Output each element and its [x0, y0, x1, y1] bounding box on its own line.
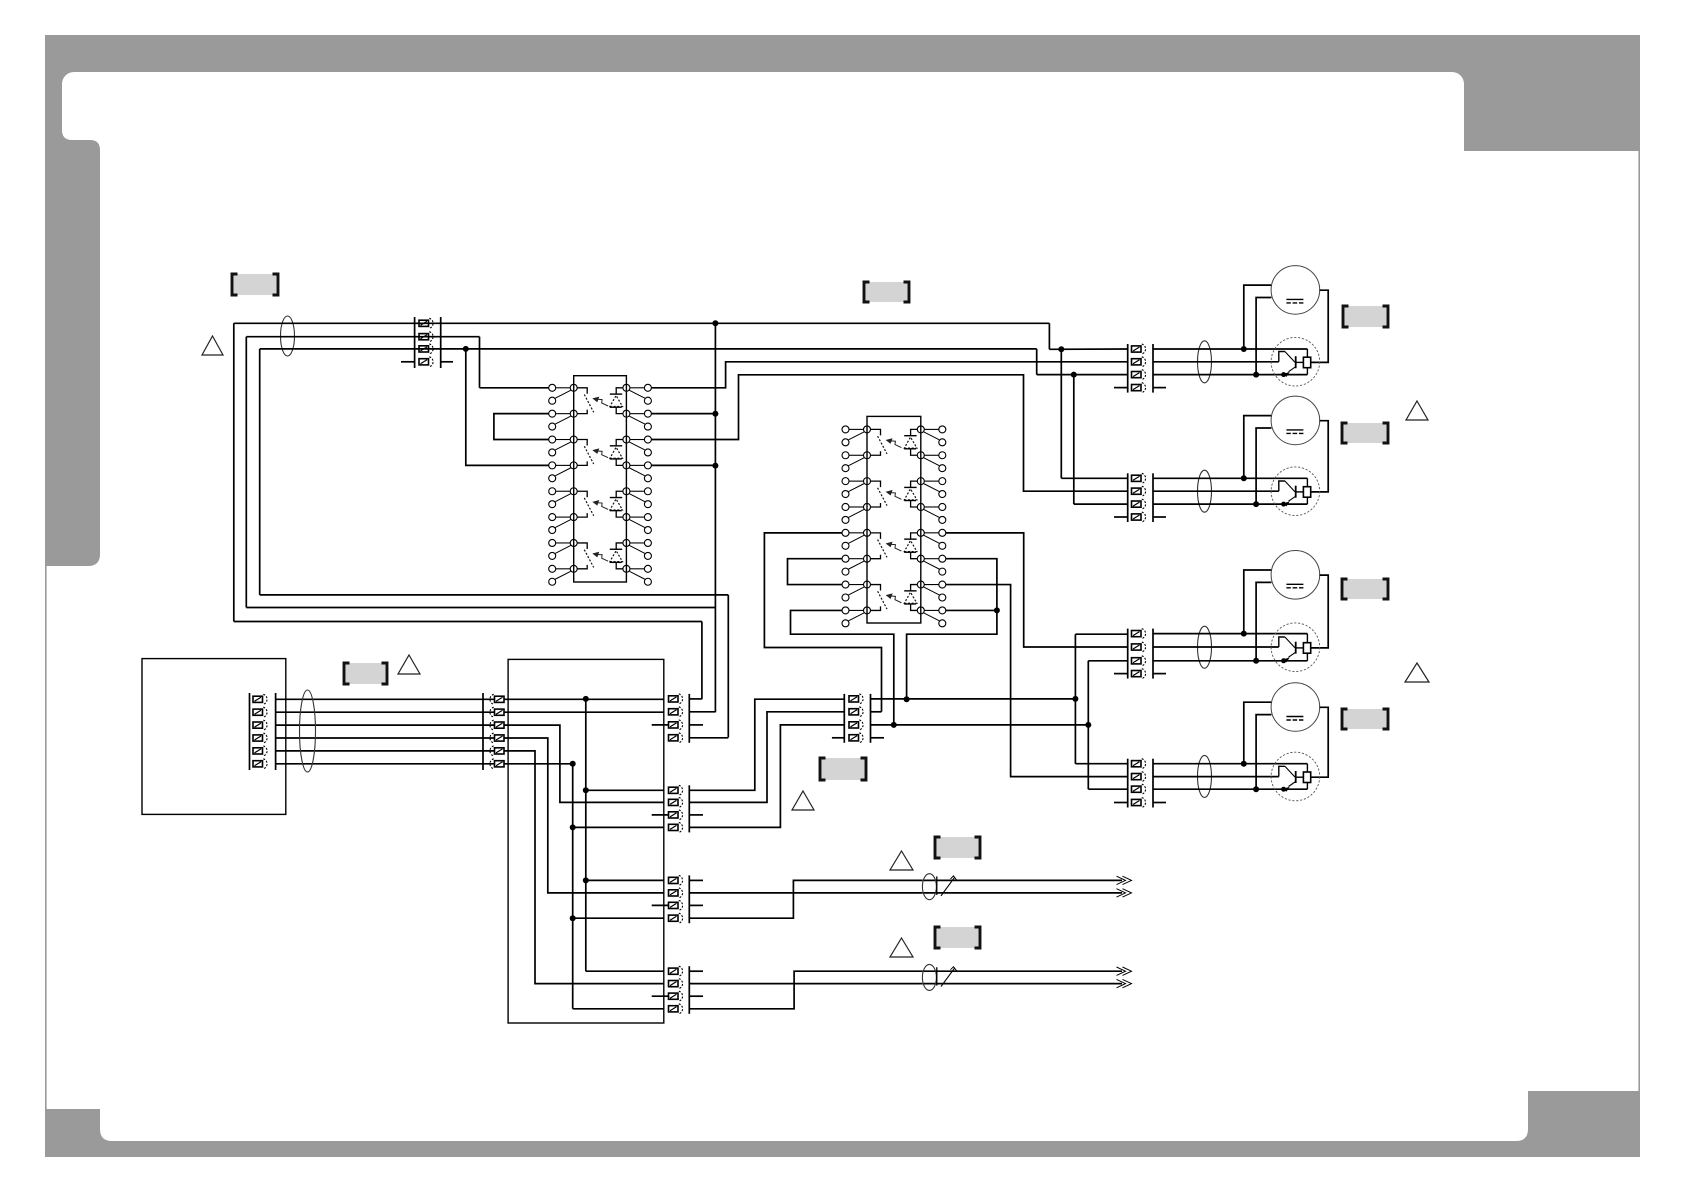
- wire U1 row3-row5 left jumper: [494, 414, 549, 440]
- transistor Q3 symbol: [1306, 634, 1308, 643]
- cable oval group 2: [1198, 470, 1212, 512]
- U1 channel 2 photo-triac symbol: [616, 440, 623, 446]
- wire CN6 row1 to vertical bus V1: [871, 698, 1076, 700]
- label box L6 (output 2): [935, 927, 980, 948]
- connector CN-C pins: [669, 877, 679, 883]
- connector CN-B pins: [669, 787, 679, 793]
- fan transistor unit Q2 circle: [1271, 467, 1320, 516]
- connector CN-F1 pins: [1132, 346, 1142, 352]
- connector CN-C bracket line: [688, 875, 690, 923]
- wire CN6 row2 stub to riser: [871, 711, 882, 713]
- PCB bus A vertical: [585, 699, 587, 971]
- wire U1 row1 right to fan-group1 row2: [651, 362, 1127, 388]
- wire group 2 row2 to motor base: [1153, 490, 1279, 492]
- wire U2 row15 right stub: [946, 609, 997, 611]
- transistor Q1 emitter arrow: [1283, 372, 1290, 377]
- wire CN-D row4 step up output: [689, 971, 922, 1009]
- warning triangle W3: [792, 791, 814, 810]
- U2 body outline: [867, 416, 921, 623]
- U2 channel 2 actuation arrow: [891, 493, 901, 500]
- label box L3 (middle left): [344, 663, 387, 684]
- U2 right pin links and spare diagonals: [924, 428, 939, 430]
- connector CN-F4 pins: [1132, 761, 1142, 767]
- connector CN4 pins: [253, 696, 263, 702]
- DC fan motor M1 circle: [1271, 266, 1320, 315]
- label box L1 (top-left connector): [232, 274, 278, 295]
- U1 channel 4 actuation arrow: [598, 554, 608, 561]
- wire DC fan M1 right leg: [1311, 290, 1328, 362]
- connector CN6 row4 NC stubs: [832, 737, 844, 739]
- connector CN-C NC row stubs: [652, 904, 669, 906]
- wire CN-C row4 step up output: [689, 880, 922, 918]
- wire group 4 row1 to motor: [1153, 763, 1307, 765]
- wire group 2 row1 to motor: [1153, 477, 1307, 479]
- DC fan motor M3 circle: [1271, 551, 1320, 600]
- wire left riser CN1 pin1: [233, 323, 235, 621]
- connector CN-F2 bracket lines: [1127, 473, 1129, 522]
- U2 channel 3 actuation arrow: [891, 544, 901, 551]
- wire net1: CN1 pin1 to fan-group1 row1 / bus1: [234, 322, 1050, 324]
- cable oval on CN1 harness: [281, 316, 295, 356]
- warning triangle W5: [890, 938, 913, 957]
- wire group 3 row3 to motor: [1153, 660, 1307, 662]
- fan transistor unit Q4 circle: [1271, 752, 1320, 801]
- connector CN-D pins: [669, 968, 679, 974]
- warning triangle W1: [202, 336, 223, 355]
- wire net2: CN1 pin2 segment to IC1 row1 LED: [246, 336, 479, 338]
- connector CN-B NC row stubs: [652, 814, 669, 816]
- PCB row1 wire: [508, 698, 664, 700]
- page frame left notch round: [62, 130, 72, 140]
- wire CN-D row2 output: [689, 983, 922, 985]
- transistor Q2 symbol: [1306, 478, 1308, 486]
- U1 right pin links and spare diagonals: [630, 387, 645, 389]
- connector CN-B bracket line: [688, 785, 690, 832]
- wire net3: CN1 pin3 long wire: [260, 348, 1037, 350]
- transistor Q4 symbol: [1306, 764, 1308, 772]
- PCB bus B branches: [573, 826, 664, 828]
- wire CN-B row4 to connector CN6 row3: [689, 725, 844, 828]
- wire group 3 row1 to motor: [1153, 633, 1307, 635]
- connector CN4 bracket lines: [249, 693, 251, 770]
- output pair arrows: [1117, 967, 1126, 975]
- U1 channel 4 photo-triac symbol: [616, 543, 623, 549]
- connector CN-F1 row4 NC stubs: [1114, 387, 1128, 389]
- warning triangle W7: [1405, 663, 1429, 682]
- label box L7 (fan group 1): [1343, 306, 1388, 327]
- wire U-run lower2: [246, 607, 715, 609]
- U2 right inner pin circles: [917, 426, 924, 433]
- main PCB outline: [508, 659, 664, 1023]
- U1 left inner pin circles: [570, 384, 577, 391]
- label box L5 (output 1): [935, 837, 980, 858]
- wire U2 row15 left underpass: [791, 610, 894, 724]
- U2 channel 3 photo-triac symbol: [911, 533, 918, 539]
- output pair arrows: [1117, 876, 1126, 884]
- U1 channel 1 photo-triac symbol: [616, 388, 623, 394]
- U1 channel 1 switch symbol: [577, 388, 587, 394]
- U2 channel 1 photo-triac symbol: [911, 429, 918, 435]
- wire net3 step down to fan-group1 row3: [1036, 349, 1038, 375]
- cable oval group 1: [1198, 341, 1212, 383]
- fan transistor unit Q3 circle: [1271, 623, 1320, 672]
- output pair bar: [936, 967, 938, 985]
- U1 left outer pin circles: [549, 384, 556, 391]
- wire group 4 row2 to motor base: [1153, 776, 1279, 778]
- label box L4 (middle): [820, 758, 866, 780]
- page frame left strip: [45, 72, 62, 140]
- U1 channel 1 actuation arrow: [598, 399, 608, 406]
- connector CN-D NC row stubs: [652, 995, 669, 997]
- wire U1 row1 left from CN1 pin2: [480, 387, 549, 389]
- U2 channel 4 photo-triac symbol: [911, 585, 918, 591]
- wire CN-C row1 stub: [689, 879, 703, 881]
- wire group 4 row3 to motor: [1153, 788, 1307, 790]
- DC fan motor M2 DC symbol: [1286, 429, 1303, 431]
- wire left riser CN1 pin3: [259, 349, 261, 595]
- U2 channel 4 switch symbol: [871, 585, 881, 591]
- U2 right outer pin circles: [939, 426, 946, 433]
- DC fan motor M3 DC symbol: [1286, 583, 1303, 585]
- wire U1 row5 right to bus3 / group2 row2: [651, 375, 1127, 491]
- U2 channel 1 switch symbol: [871, 429, 881, 435]
- U2 left inner pin circles: [864, 426, 871, 433]
- wire CN-A row4 from U-run lower3: [689, 737, 728, 739]
- harness 6 wires to main PCB: [276, 698, 509, 700]
- wire DC fan M1 legs: [1244, 285, 1271, 349]
- wire U2 row13 right to group4 row2: [946, 585, 1128, 777]
- wire DC fan M4 right leg: [1311, 707, 1328, 777]
- transistor Q1 symbol: [1306, 349, 1308, 357]
- connector CN-F4 row4 NC stubs: [1114, 802, 1128, 804]
- connector CN6 pins: [849, 696, 859, 702]
- label box L8 (fan group 2): [1342, 423, 1388, 443]
- connector CN5 bracket line: [482, 693, 484, 770]
- wire U1 row7 left to net3: [466, 349, 549, 465]
- wire U-run lower1: [234, 621, 702, 623]
- fan transistor unit Q1 circle: [1271, 337, 1320, 386]
- output pair slash mark: [941, 877, 955, 896]
- wire CN6 row3 to vertical bus V2: [871, 724, 1089, 726]
- wire group 1 row2 to motor base: [1153, 361, 1279, 363]
- U2 channel 2 switch symbol: [871, 481, 881, 487]
- wire U1 row7 right to common vertical: [651, 464, 715, 466]
- connector CN1 bracket lines: [414, 317, 416, 368]
- cable oval group 3: [1198, 626, 1212, 668]
- wire left riser CN1 pin2: [245, 337, 247, 608]
- label box L10 (fan group 4): [1342, 709, 1388, 729]
- connector CN-F3 bracket lines: [1127, 629, 1129, 679]
- PCB row4 wire to cluster C row2: [508, 738, 664, 893]
- transistor Q3 emitter arrow: [1283, 657, 1290, 662]
- wire CN-B row1 to connector CN6 row1: [689, 699, 844, 790]
- page frame bottom band: [45, 1141, 1640, 1157]
- wire bus2 down to group2 row3: [1073, 375, 1075, 505]
- wire DC fan M2 legs: [1244, 416, 1271, 479]
- output pair cable oval: [922, 874, 936, 900]
- DC fan motor M4 circle: [1271, 683, 1320, 732]
- cable oval group 4: [1198, 755, 1212, 797]
- page frame left thin edge: [45, 566, 47, 1141]
- output pair bar: [936, 876, 938, 895]
- DC fan motor M1 DC symbol: [1286, 298, 1303, 300]
- PCB bus A branches: [586, 789, 664, 791]
- connector CN-A NC row stubs: [652, 724, 669, 726]
- connector CN-A bracket line: [688, 694, 690, 743]
- vertical bus V1 (group3/group4 row1 feed): [1074, 634, 1076, 764]
- DC fan motor M2 circle: [1271, 396, 1320, 445]
- output pair wires: [922, 879, 1122, 881]
- U2 channel 1 actuation arrow: [891, 441, 901, 448]
- U2 channel 3 switch symbol: [871, 533, 881, 539]
- output pair wires: [922, 970, 1122, 972]
- wire group 2 row3 to motor: [1153, 503, 1307, 505]
- warning triangle W4: [890, 851, 913, 870]
- output pair cable oval: [922, 964, 936, 990]
- connector CN-A pins: [669, 696, 679, 702]
- PCB row2 wire: [508, 711, 664, 713]
- U1 body outline: [574, 376, 627, 582]
- wire bus1 down to group2 row1: [1060, 349, 1062, 478]
- page frame top-left corner round: [62, 72, 74, 84]
- transistor Q2 emitter arrow: [1283, 501, 1290, 506]
- page frame bottom-left tab: [45, 1109, 112, 1141]
- connector CN-F1 bracket lines: [1127, 344, 1129, 393]
- wire CN-B row2 to connector CN6 row2: [689, 712, 844, 803]
- vertical bus V2 (group3/group4 row3 feed): [1087, 661, 1089, 789]
- label box L9 (fan group 3): [1342, 579, 1388, 599]
- wire CN-A row1 from U-run lower1: [689, 698, 702, 700]
- page frame bottom-right tab: [1516, 1091, 1640, 1141]
- output pair slash mark: [941, 968, 955, 986]
- U1 channel 3 switch symbol: [577, 491, 587, 497]
- PCB row3 wire to cluster B row2: [508, 725, 664, 802]
- connector CN6 bracket lines: [843, 694, 845, 743]
- PCB bus B vertical: [508, 763, 573, 765]
- wire common vertical 715 with junctions: [714, 323, 716, 712]
- wire U2 row11-row13 left jumper: [788, 559, 843, 585]
- warning triangle W2: [398, 655, 420, 674]
- wire U1 row3 right to common vertical: [651, 413, 715, 415]
- PCB row5 wire to cluster D row2: [508, 751, 664, 984]
- wire DC fan M3 right leg: [1311, 575, 1328, 648]
- U1 channel 4 switch symbol: [577, 543, 587, 549]
- DC fan motor M4 DC symbol: [1286, 716, 1303, 718]
- U1 left pin links and spare diagonals: [556, 387, 571, 389]
- connector CN-F4 bracket lines: [1127, 759, 1129, 808]
- U1 right inner pin circles: [623, 384, 630, 391]
- U1 right outer pin circles: [644, 384, 651, 391]
- U1 channel 2 switch symbol: [577, 440, 587, 446]
- wire CN-D row1 stub: [689, 970, 703, 972]
- U1 channel 2 actuation arrow: [598, 451, 608, 458]
- U2 left pin links and spare diagonals: [849, 428, 864, 430]
- connector CN5 pins: [495, 696, 505, 702]
- U2 channel 2 photo-triac symbol: [911, 481, 918, 487]
- wire group 3 row2 to motor base: [1153, 646, 1279, 648]
- page frame left tab: [45, 140, 100, 566]
- label box L2 (top middle): [864, 282, 909, 302]
- connector CN-F2 pins: [1132, 475, 1142, 481]
- wire DC fan M4 legs: [1244, 702, 1271, 764]
- transistor Q4 emitter arrow: [1283, 787, 1290, 792]
- wire U-run lower3: [260, 594, 729, 596]
- connector CN-F3 row4 NC stubs: [1114, 673, 1128, 675]
- wire U2 row11 right loop: [907, 559, 997, 700]
- page frame top-right corner round: [1452, 72, 1464, 84]
- cable oval on 6-wire harness: [300, 690, 316, 772]
- connector CN-F2 row4 NC stubs: [1114, 516, 1128, 518]
- connector CN1 pin4 NC stubs: [401, 361, 415, 363]
- page frame top band: [45, 35, 1640, 72]
- wire CN-C row2 output: [689, 892, 922, 894]
- wire DC fan M2 right leg: [1311, 421, 1328, 492]
- connector CN1 pins: [419, 320, 429, 326]
- interface block outline: [142, 659, 286, 815]
- wire CN-A row2 from common vertical: [689, 711, 715, 713]
- wire group 1 row3 to motor: [1153, 374, 1307, 376]
- connector CN-F3 pins: [1132, 631, 1142, 637]
- wire U2 row9 left to connector CN5 row2: [764, 533, 881, 712]
- wire group 1 row1 to motor: [1153, 348, 1307, 350]
- U2 left outer pin circles: [842, 426, 849, 433]
- wire U2 row9 right to group3 row2: [946, 533, 1128, 647]
- U2 channel 4 actuation arrow: [891, 596, 901, 603]
- connector CN-D bracket line: [688, 966, 690, 1014]
- U1 channel 3 photo-triac symbol: [616, 491, 623, 497]
- wire DC fan M3 legs: [1244, 570, 1271, 634]
- U1 channel 3 actuation arrow: [598, 503, 608, 510]
- warning triangle W6: [1406, 401, 1428, 420]
- page frame top-right tab: [1464, 72, 1640, 151]
- page frame right thin edge: [1638, 151, 1640, 1091]
